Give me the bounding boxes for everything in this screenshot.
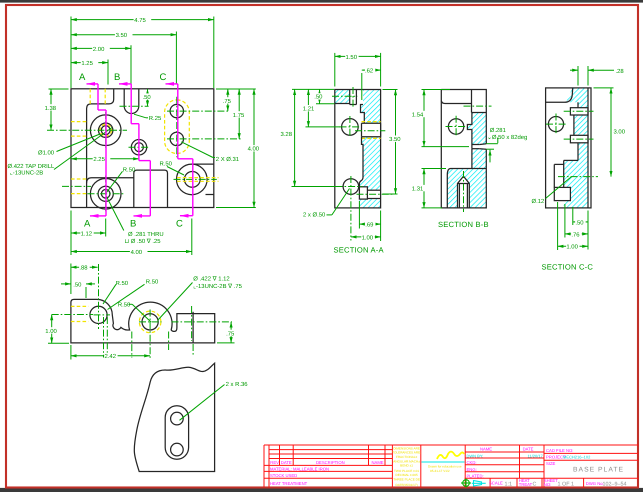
dim 4.00 bottom xyxy=(71,219,192,256)
dim 3.00 right xyxy=(594,88,626,177)
svg-text:.69: .69 xyxy=(365,222,373,229)
hatch right region mid xyxy=(472,149,486,169)
plate outline xyxy=(71,89,214,208)
svg-text:.50: .50 xyxy=(575,219,584,226)
side hole notch bottom right xyxy=(359,187,367,199)
ext lines top xyxy=(70,17,72,89)
two small holes right (2 X .31) xyxy=(170,104,183,117)
svg-text:Ø.12: Ø.12 xyxy=(532,198,545,205)
svg-text:B: B xyxy=(114,72,120,83)
svg-text:Drawn for education use: Drawn for education use xyxy=(428,465,462,469)
outline B-B xyxy=(441,90,486,208)
centerline slot xyxy=(120,105,149,107)
svg-text:1.54: 1.54 xyxy=(412,111,424,118)
hidden center drops xyxy=(103,317,105,358)
hidden side hole upper-left xyxy=(71,121,87,123)
outline C-C xyxy=(546,88,591,208)
svg-text:1.00: 1.00 xyxy=(566,244,578,251)
counterbored tap hole top-left xyxy=(90,115,121,146)
tap hole from bottom xyxy=(458,176,470,208)
svg-text:1.25: 1.25 xyxy=(81,60,93,67)
svg-text:2 x R.36: 2 x R.36 xyxy=(226,381,249,388)
dim 2.00 xyxy=(71,45,131,52)
svg-text:.88: .88 xyxy=(79,265,88,272)
centerlines xyxy=(332,95,358,97)
dim 3.28 left xyxy=(281,89,337,186)
svg-text:R.50: R.50 xyxy=(116,280,129,287)
label R.50 valley xyxy=(118,301,151,322)
svg-text:C: C xyxy=(176,219,183,230)
dim 3.50 right xyxy=(383,90,403,195)
svg-text:NO:: NO: xyxy=(544,482,551,487)
outline A-A xyxy=(335,90,381,208)
hole bottom-left counterbore xyxy=(90,179,121,210)
dim 1.12 xyxy=(71,211,106,256)
outline with break line xyxy=(134,363,214,471)
svg-text:STOCK USED: STOCK USED xyxy=(270,473,297,478)
dim 1.25 xyxy=(71,60,108,67)
svg-text:1.12: 1.12 xyxy=(81,230,92,237)
dim .28 top xyxy=(570,66,624,86)
svg-text:2 X Ø.31: 2 X Ø.31 xyxy=(216,156,239,163)
hatch regions xyxy=(335,90,350,104)
lower side hole circle xyxy=(343,179,359,195)
dim 4.75 xyxy=(71,17,214,24)
svg-text:2.42: 2.42 xyxy=(105,353,116,360)
svg-text:Ø .281 THRU: Ø .281 THRU xyxy=(128,231,164,238)
svg-text:CKD:: CKD: xyxy=(467,460,477,465)
svg-text:REV: REV xyxy=(270,460,279,465)
svg-text:R.50: R.50 xyxy=(146,278,159,285)
svg-text:A: A xyxy=(79,72,86,83)
block top-left edges xyxy=(349,90,351,105)
signature cell xyxy=(464,445,466,488)
dim .69 xyxy=(359,201,380,241)
svg-text:Ø .422 ∇ 1.12: Ø .422 ∇ 1.12 xyxy=(193,275,229,282)
centerline big hole / side hole xyxy=(47,129,127,131)
dim .50 bottom xyxy=(573,207,588,250)
svg-text:.76: .76 xyxy=(571,231,580,238)
note 2 X dia .31 xyxy=(181,142,239,163)
title block outer frame xyxy=(264,444,639,446)
slot hole lower xyxy=(171,443,184,456)
svg-text:11/20/17: 11/20/17 xyxy=(528,453,544,458)
svg-text:NAME: NAME xyxy=(480,447,492,452)
side hole circle xyxy=(548,117,563,132)
bottom window bar xyxy=(0,488,643,492)
svg-text:BASE PLATE: BASE PLATE xyxy=(573,467,624,474)
svg-text:3.50: 3.50 xyxy=(389,136,401,143)
svg-text:2.00: 2.00 xyxy=(93,46,105,53)
dim .62 xyxy=(362,67,381,100)
side hole circle xyxy=(448,119,463,134)
centerline lower hole xyxy=(558,176,598,178)
counterbore box xyxy=(554,187,570,200)
svg-text:SECTION C-C: SECTION C-C xyxy=(542,263,594,272)
svg-text:2.25: 2.25 xyxy=(93,156,105,163)
dim 2.25 xyxy=(71,156,139,163)
hatch right region upper xyxy=(467,113,486,145)
svg-text:3.00: 3.00 xyxy=(614,129,626,136)
slot cut edge xyxy=(471,90,473,113)
pocket edge bottom-left xyxy=(87,178,134,183)
svg-text:R.50: R.50 xyxy=(123,167,136,174)
label R.50 boss1 xyxy=(103,280,129,304)
hidden side hole right xyxy=(177,177,219,179)
svg-text:BEND ±1: BEND ±1 xyxy=(400,464,413,468)
svg-text:1:1: 1:1 xyxy=(505,481,513,487)
note dia .422 tapped xyxy=(158,275,243,320)
lower step xyxy=(447,169,486,208)
centerline right block xyxy=(172,321,233,323)
dim 1.31 xyxy=(412,169,447,208)
lower steps xyxy=(564,159,578,161)
svg-text:1.31: 1.31 xyxy=(412,186,423,193)
svg-text:SECTION A-A: SECTION A-A xyxy=(334,246,385,255)
rev table rows xyxy=(269,449,392,451)
centerline bottom-right hole xyxy=(174,178,217,180)
boss hole 1 xyxy=(90,306,107,323)
svg-text:.50: .50 xyxy=(143,94,152,101)
svg-text:1 OF 1: 1 OF 1 xyxy=(558,481,574,487)
dim .75 right xyxy=(217,322,236,343)
svg-text:4.00: 4.00 xyxy=(131,249,143,256)
svg-text:1.75: 1.75 xyxy=(233,112,245,119)
svg-text:Ø.422 TAP DRILL: Ø.422 TAP DRILL xyxy=(8,163,56,170)
note dia .281 csk xyxy=(486,127,527,162)
dim .50 slot xyxy=(142,89,153,106)
svg-text:HEAT TREATMENT: HEAT TREATMENT xyxy=(270,481,308,486)
hatch boundary with side-hole notch xyxy=(467,113,472,145)
upper side hole circle xyxy=(342,119,359,136)
slot obround xyxy=(165,406,188,460)
svg-text:NAME: NAME xyxy=(372,460,384,465)
hatch regions xyxy=(566,88,588,108)
dim .76 bottom xyxy=(565,204,588,238)
note dia .12 xyxy=(532,177,572,205)
inner edge right block xyxy=(192,312,194,343)
svg-text:⌞-13UNC-2B: ⌞-13UNC-2B xyxy=(10,170,43,177)
note 2 x R.36 xyxy=(180,381,249,421)
svg-text:4.75: 4.75 xyxy=(134,17,146,24)
outline front view xyxy=(71,299,215,343)
label R.50 boss2 xyxy=(108,278,159,309)
svg-text:.50: .50 xyxy=(314,94,323,101)
hatch bottom region xyxy=(447,169,486,208)
hidden obround counterbore xyxy=(165,100,190,154)
svg-text:⌞-13UNC-2B ∇ .75: ⌞-13UNC-2B ∇ .75 xyxy=(193,283,242,290)
rib strip edges xyxy=(577,102,579,107)
svg-text:DATE: DATE xyxy=(281,460,292,465)
svg-text:SCALE: SCALE xyxy=(489,481,503,486)
section line B xyxy=(119,84,150,216)
svg-text:DESCRIPTION: DESCRIPTION xyxy=(316,460,345,465)
dim .88 xyxy=(71,264,98,295)
dim .50 xyxy=(61,281,95,298)
hole slot lower xyxy=(570,135,588,143)
dim 1.54 xyxy=(412,90,470,147)
svg-text:.50: .50 xyxy=(73,281,82,288)
note dia .281 thru xyxy=(107,197,164,246)
svg-text:ENG:: ENG: xyxy=(467,467,477,472)
svg-text:⌄Ø.50 x 82deg: ⌄Ø.50 x 82deg xyxy=(487,134,527,141)
tolerance note block xyxy=(420,445,422,488)
top face line xyxy=(441,101,471,104)
ext lines right xyxy=(216,88,256,90)
label R.50 bottom-left hole xyxy=(107,167,136,193)
top-left step xyxy=(546,88,573,102)
svg-text:1.00: 1.00 xyxy=(362,234,374,241)
dim 1.75 right xyxy=(233,89,246,139)
white box counterbore xyxy=(554,187,570,200)
name/date table xyxy=(519,445,521,478)
svg-text:DATE(05/31/17): DATE(05/31/17) xyxy=(396,483,418,487)
svg-text:3.28: 3.28 xyxy=(281,131,293,138)
svg-text:TREAT: TREAT xyxy=(519,482,533,487)
right info rows xyxy=(544,452,639,454)
svg-text:Ø.281: Ø.281 xyxy=(490,127,506,134)
rev table columns xyxy=(268,445,270,488)
dim 1.00 left xyxy=(45,315,69,344)
boss hole 2 xyxy=(142,314,158,330)
centerline obround holes xyxy=(176,97,178,157)
dim 2.42 xyxy=(71,345,150,360)
svg-text:.75: .75 xyxy=(223,98,232,105)
dim 1.00 xyxy=(351,234,381,241)
top window bar xyxy=(0,0,643,3)
svg-text:SIZE: SIZE xyxy=(546,461,556,466)
svg-text:1.50: 1.50 xyxy=(346,54,358,61)
step edge top-left xyxy=(87,89,114,208)
centerline middle hole xyxy=(129,146,150,148)
slot hole upper xyxy=(171,412,184,425)
csk hole from right xyxy=(472,144,480,146)
svg-text:.62: .62 xyxy=(365,68,373,75)
centerline bottom-left hole xyxy=(88,193,125,195)
side hole band (white with thread lines) xyxy=(362,123,381,137)
hole slot upper xyxy=(570,108,588,115)
svg-text:1.38: 1.38 xyxy=(45,105,57,112)
svg-text:1.21: 1.21 xyxy=(303,106,314,113)
internal step boundary upper xyxy=(361,105,365,125)
svg-text:MATERIAL: MALLEABLE IRON: MATERIAL: MALLEABLE IRON xyxy=(270,467,329,472)
svg-text:SECTION B-B: SECTION B-B xyxy=(438,220,489,229)
svg-text:DWG No.: DWG No. xyxy=(586,481,604,486)
svg-text:3.50: 3.50 xyxy=(116,32,128,39)
dim 3.50 xyxy=(71,32,176,39)
dim 1.00 bottom xyxy=(558,202,588,251)
internal step boundary lower xyxy=(359,137,363,187)
slot notch top middle xyxy=(124,89,139,114)
svg-text:Ø1.00: Ø1.00 xyxy=(38,149,55,156)
label R.50 bottom-right hole xyxy=(160,161,185,175)
boss bottom middle xyxy=(134,170,168,207)
centerline lower side hole xyxy=(62,185,91,187)
svg-text:C: C xyxy=(533,481,537,487)
hole middle xyxy=(131,140,146,155)
dim 4.00 right xyxy=(247,89,260,208)
hidden lines top-left step xyxy=(89,89,91,104)
svg-text:MECH216–102: MECH216–102 xyxy=(563,454,591,459)
svg-text:DWN BY:: DWN BY: xyxy=(467,453,484,458)
svg-text:DATE: DATE xyxy=(523,447,534,452)
svg-text:4.00: 4.00 xyxy=(248,146,260,153)
projection symbols xyxy=(461,479,471,488)
dim .50 left xyxy=(292,89,335,103)
svg-text:102–9–54: 102–9–54 xyxy=(603,481,627,487)
dim 1.50 xyxy=(335,53,381,87)
svg-text:B: B xyxy=(130,219,136,230)
svg-text:R.50: R.50 xyxy=(160,161,173,168)
note 2 x dia .50 xyxy=(303,189,350,219)
svg-text:A: A xyxy=(84,219,91,230)
svg-text:R.25: R.25 xyxy=(149,115,162,122)
svg-text:2 x Ø.50: 2 x Ø.50 xyxy=(303,212,326,219)
label dia 1.00 xyxy=(38,134,100,156)
svg-text:PLATED:: PLATED: xyxy=(467,473,484,478)
tapped hole from top xyxy=(355,90,357,105)
dim 1.21 left xyxy=(303,89,341,127)
boss hole bottom-right xyxy=(177,164,208,195)
svg-text:CAD FILE NO:: CAD FILE NO: xyxy=(546,448,573,453)
bottom row cells xyxy=(489,478,491,487)
hidden side hole lower-left xyxy=(71,178,87,180)
svg-text:.28: .28 xyxy=(616,68,625,75)
dim .75 right xyxy=(222,89,233,111)
section line C xyxy=(166,84,193,216)
svg-text:05-31-17 V1/2: 05-31-17 V1/2 xyxy=(430,469,450,473)
section line A xyxy=(87,84,107,216)
boss bottom right tangent edges xyxy=(192,163,214,165)
svg-text:THREE PLACE DE: THREE PLACE DE xyxy=(393,478,420,482)
svg-text:R.50: R.50 xyxy=(118,301,131,308)
dim 1.38 left xyxy=(44,89,68,130)
tap hole white xyxy=(458,176,470,208)
svg-text:C: C xyxy=(160,72,167,83)
note .422 tap drill xyxy=(8,128,113,177)
svg-text:⊔ Ø .50 ∇ .25: ⊔ Ø .50 ∇ .25 xyxy=(125,238,162,245)
hidden side hole left xyxy=(71,305,89,307)
label R.25 xyxy=(134,114,162,122)
svg-text:.75: .75 xyxy=(226,330,235,337)
svg-text:1.00: 1.00 xyxy=(45,328,57,335)
